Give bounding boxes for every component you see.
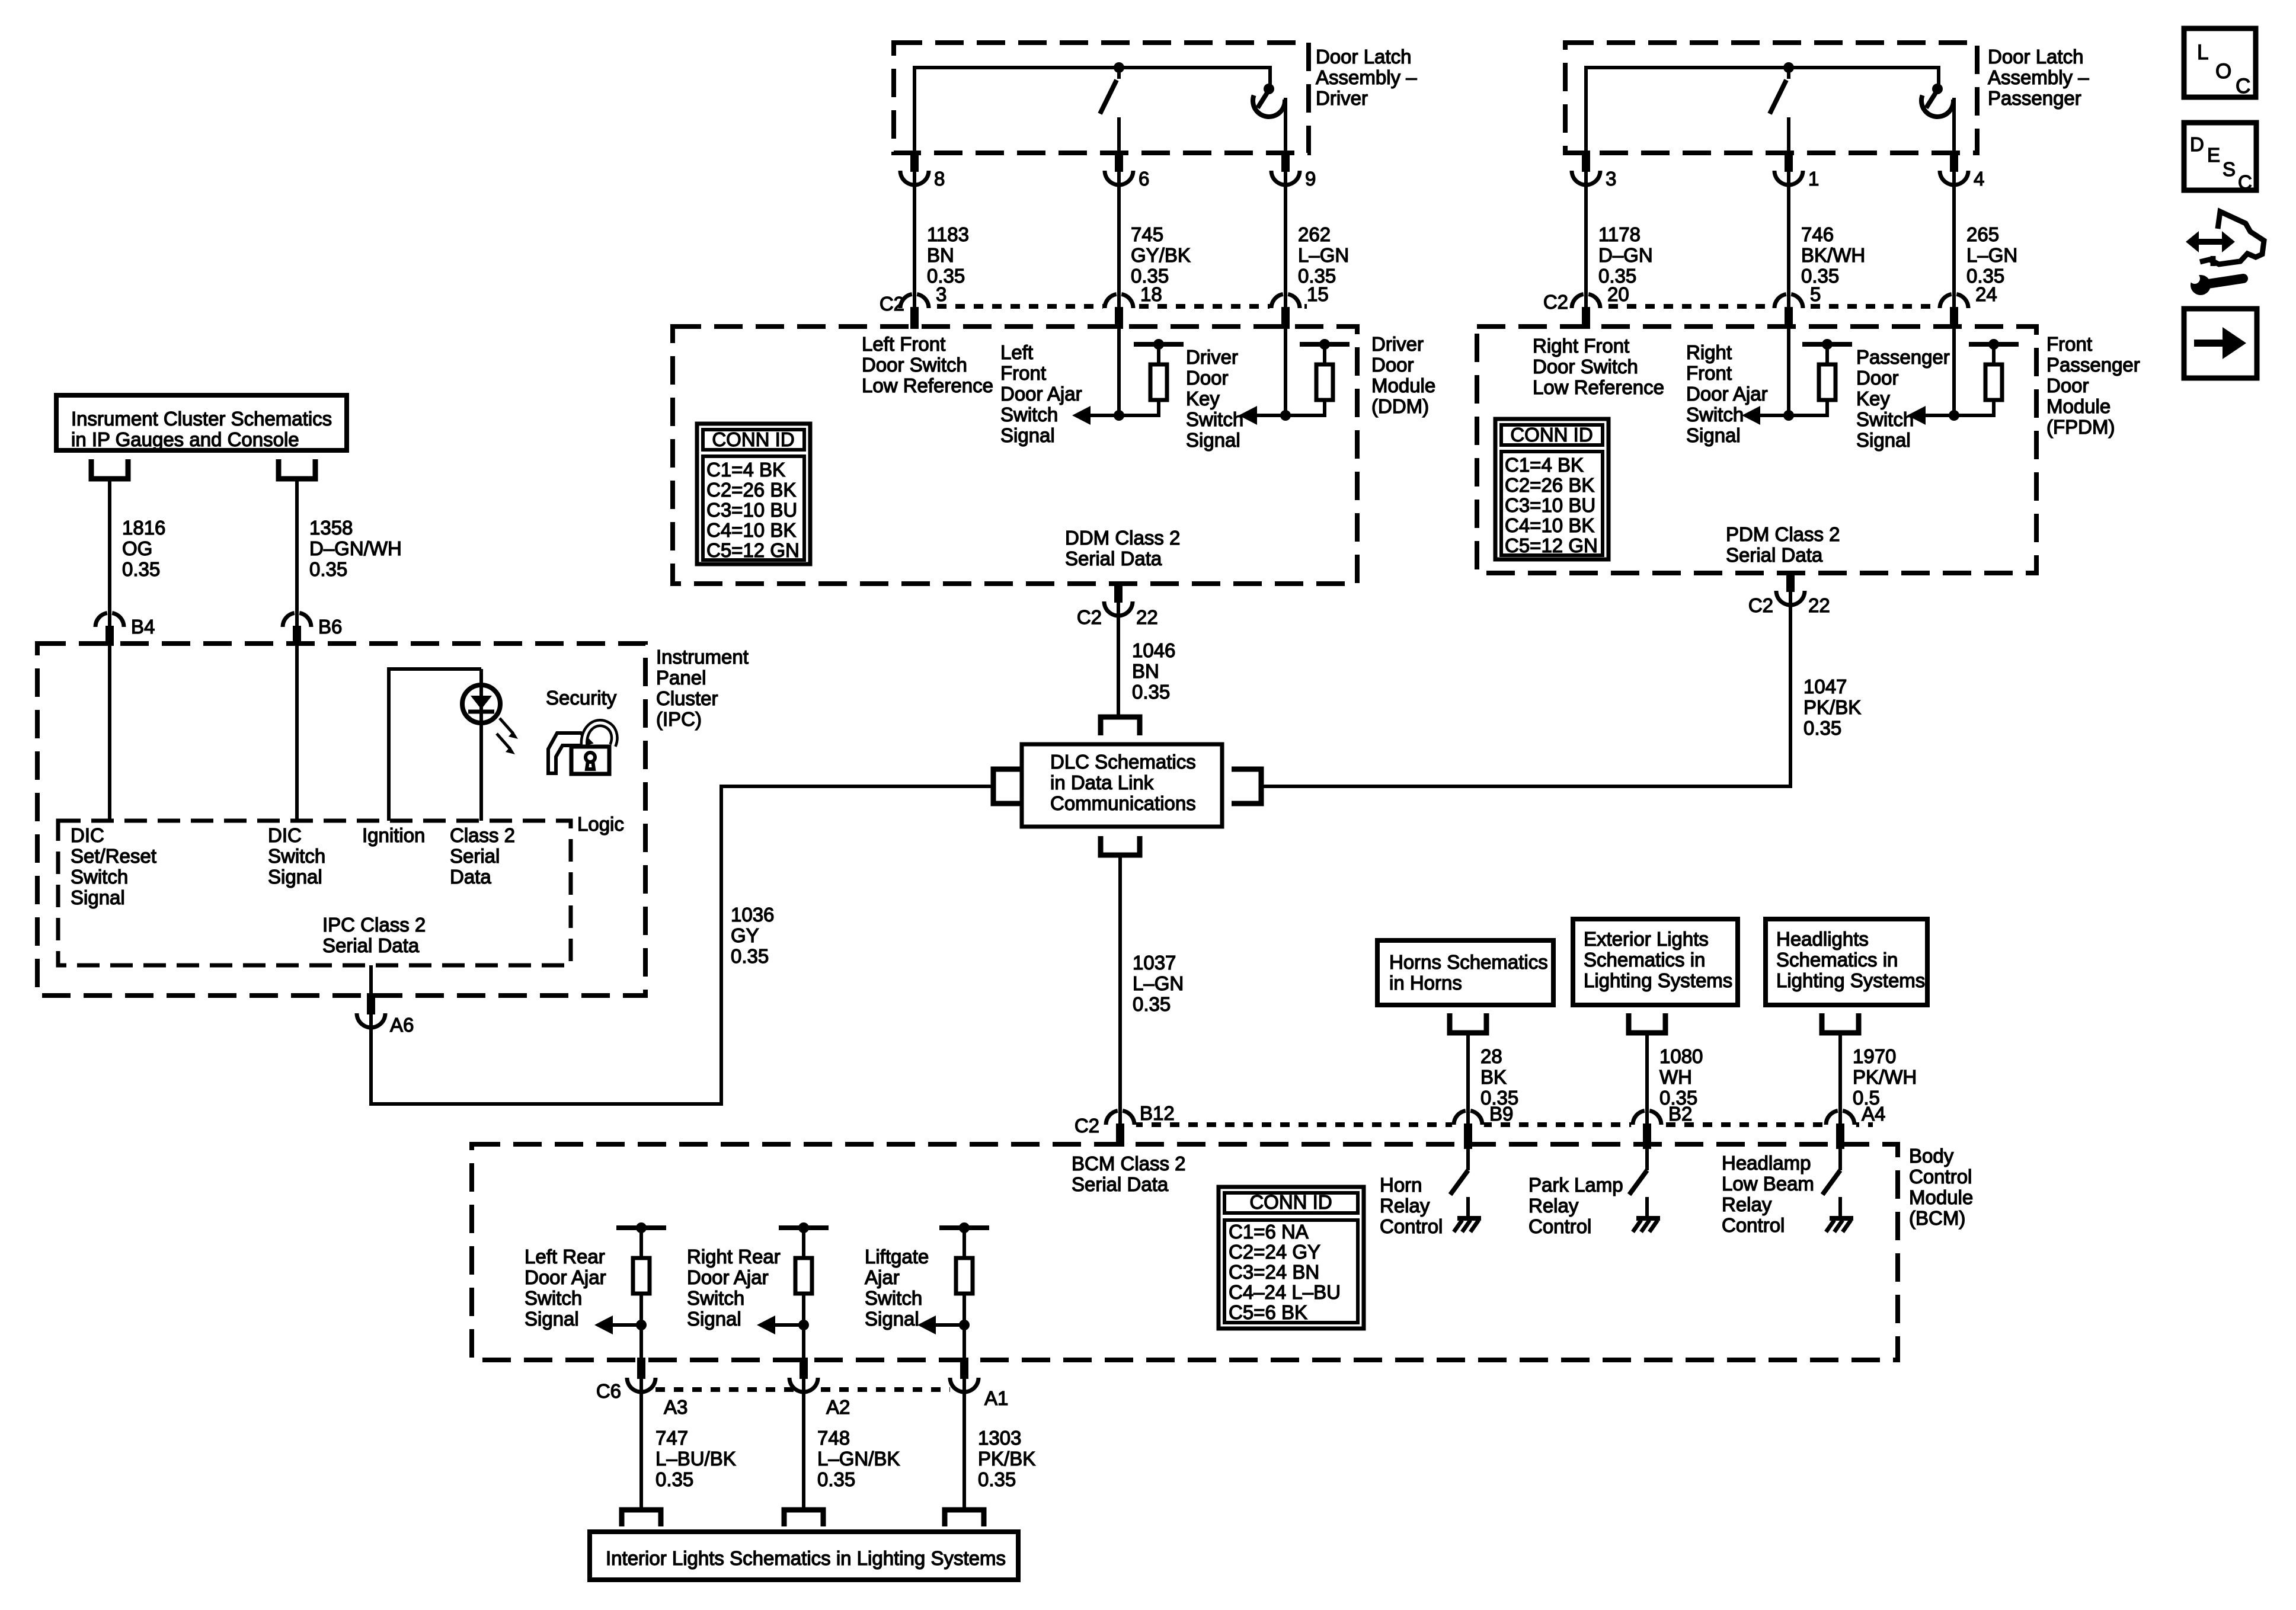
svg-text:Door: Door <box>1371 354 1414 376</box>
svg-text:C4–24 L–BU: C4–24 L–BU <box>1229 1281 1341 1303</box>
connector A4 <box>1824 1109 1856 1141</box>
DESC icon box <box>2184 123 2256 190</box>
connector C2-15 DDM <box>1269 292 1302 324</box>
car repair icon car outline <box>2200 212 2264 264</box>
svg-text:1036: 1036 <box>731 904 774 926</box>
svg-text:Right Rear: Right Rear <box>687 1246 781 1267</box>
connector C2-22 DDM <box>1102 585 1134 617</box>
svg-text:Driver: Driver <box>1186 346 1238 368</box>
wire 748 L-GN/BK <box>802 1392 805 1510</box>
svg-text:18: 18 <box>1140 283 1162 305</box>
svg-text:1080: 1080 <box>1659 1045 1703 1067</box>
forward arrow icon box <box>2184 309 2257 378</box>
connector C2-18 DDM <box>1103 292 1135 324</box>
IPC logic dashed box <box>58 821 571 965</box>
svg-text:A3: A3 <box>664 1396 687 1418</box>
svg-text:(BCM): (BCM) <box>1909 1207 1965 1229</box>
svg-text:Door: Door <box>2046 375 2089 396</box>
svg-text:C5=12 GN: C5=12 GN <box>706 539 800 561</box>
svg-text:4: 4 <box>1974 168 1984 190</box>
svg-text:(FPDM): (FPDM) <box>2046 416 2115 438</box>
wire passenger latch key drop <box>1937 66 1940 87</box>
resistor DDM door ajar <box>1134 342 1184 347</box>
svg-text:L–GN: L–GN <box>1966 244 2017 266</box>
svg-text:L: L <box>2197 41 2208 64</box>
svg-text:DIC: DIC <box>71 824 104 846</box>
PDM C2 dotted line <box>1572 304 1974 309</box>
svg-text:1183: 1183 <box>927 223 969 245</box>
svg-text:Signal: Signal <box>1856 429 1911 451</box>
svg-text:20: 20 <box>1607 283 1629 305</box>
svg-text:24: 24 <box>1975 283 1997 305</box>
key switch driver lever <box>1258 90 1269 108</box>
svg-text:WH: WH <box>1659 1066 1692 1088</box>
horns schematics box <box>1377 940 1553 1005</box>
svg-text:Passenger: Passenger <box>1988 87 2081 109</box>
svg-text:Park Lamp: Park Lamp <box>1528 1174 1623 1196</box>
key switch passenger arc <box>1921 95 1953 117</box>
BCM dashed box <box>472 1144 1898 1360</box>
wire DDM pin18 internal <box>1117 327 1121 415</box>
svg-text:Headlights: Headlights <box>1776 928 1869 950</box>
svg-text:S: S <box>2223 158 2236 180</box>
interior lights bracket 1 <box>622 1510 661 1526</box>
svg-text:E: E <box>2207 144 2220 166</box>
DDM C2 dotted line <box>900 304 1307 309</box>
forward arrow icon <box>2194 340 2226 347</box>
svg-text:Signal: Signal <box>268 866 322 888</box>
wire A6 to DLC <box>371 786 993 1104</box>
svg-text:Panel: Panel <box>656 667 706 689</box>
svg-text:Switch: Switch <box>71 866 128 888</box>
svg-text:Horn: Horn <box>1380 1174 1422 1196</box>
instrument cluster schematics box <box>56 395 347 450</box>
svg-text:Communications: Communications <box>1050 792 1196 814</box>
svg-text:C5=6 BK: C5=6 BK <box>1229 1301 1307 1323</box>
svg-text:C3=10 BU: C3=10 BU <box>706 499 797 521</box>
svg-text:Switch: Switch <box>865 1287 922 1309</box>
svg-text:22: 22 <box>1808 594 1830 616</box>
svg-text:C2=26 BK: C2=26 BK <box>1505 474 1594 496</box>
svg-text:Control: Control <box>1528 1215 1591 1237</box>
svg-text:BK: BK <box>1480 1066 1507 1088</box>
wire FPDM pin24 internal <box>1952 327 1956 415</box>
wire passenger latch pin4 drop <box>1952 98 1956 155</box>
wire 1046 BN <box>1117 616 1120 716</box>
svg-text:Switch: Switch <box>1856 408 1914 430</box>
svg-text:Assembly –: Assembly – <box>1316 66 1417 88</box>
svg-text:Door Latch: Door Latch <box>1316 46 1411 68</box>
svg-text:Serial Data: Serial Data <box>1065 548 1162 569</box>
svg-text:Module: Module <box>1371 375 1435 396</box>
wire ignition <box>389 669 481 821</box>
resistor DDM key switch <box>1300 342 1350 347</box>
svg-text:Horns Schematics: Horns Schematics <box>1389 951 1548 973</box>
svg-text:Key: Key <box>1186 388 1220 409</box>
svg-text:0.35: 0.35 <box>978 1468 1016 1490</box>
BCM CONN ID table <box>1219 1187 1364 1329</box>
LOC icon box <box>2184 28 2256 97</box>
svg-text:B12: B12 <box>1140 1102 1175 1124</box>
svg-text:Cluster: Cluster <box>656 687 718 709</box>
svg-text:D–GN/WH: D–GN/WH <box>309 537 402 559</box>
svg-text:C1=4 BK: C1=4 BK <box>706 459 785 481</box>
svg-text:IPC Class 2: IPC Class 2 <box>322 914 426 936</box>
svg-text:Control: Control <box>1380 1215 1443 1237</box>
connector pin 4 <box>1938 155 1970 187</box>
wire 1358 D-GN/WH <box>295 481 299 613</box>
interior lights bracket 3 <box>945 1510 984 1526</box>
svg-text:Interior Lights Schematics in: Interior Lights Schematics in Lighting S… <box>606 1547 1006 1569</box>
svg-text:0.35: 0.35 <box>731 945 769 967</box>
svg-text:Control: Control <box>1722 1214 1785 1236</box>
svg-text:Signal: Signal <box>1186 429 1240 451</box>
svg-text:1046: 1046 <box>1132 639 1175 661</box>
IC right plug bracket <box>279 459 315 479</box>
svg-text:D–GN: D–GN <box>1598 244 1653 266</box>
svg-text:(IPC): (IPC) <box>656 708 702 730</box>
svg-text:Signal: Signal <box>525 1308 579 1330</box>
connector A2 <box>788 1362 820 1394</box>
node passenger key junction <box>1932 84 1943 94</box>
svg-text:8: 8 <box>934 168 945 190</box>
wire 1047 horizontal to DLC <box>1262 785 1792 788</box>
svg-text:Signal: Signal <box>687 1308 741 1330</box>
arrow DDM key switch signal <box>1257 414 1285 417</box>
wire DDM class2 to DLC <box>1117 616 1120 717</box>
svg-text:Door: Door <box>1186 367 1229 389</box>
svg-text:DDM Class 2: DDM Class 2 <box>1065 527 1180 549</box>
wire 745 GY/BK <box>1117 185 1121 294</box>
BCM bottom dotted line <box>655 1387 950 1392</box>
svg-text:Lighting Systems: Lighting Systems <box>1776 969 1925 991</box>
svg-text:746: 746 <box>1801 223 1834 245</box>
wire FPDM pin1 internal <box>1787 327 1790 415</box>
svg-text:Signal: Signal <box>1000 424 1055 446</box>
resistor FPDM door ajar <box>1802 342 1852 347</box>
security car icon <box>548 733 590 773</box>
svg-text:0.35: 0.35 <box>655 1468 693 1490</box>
svg-text:BN: BN <box>1132 660 1159 682</box>
svg-text:B9: B9 <box>1489 1103 1513 1125</box>
svg-text:Module: Module <box>2046 395 2110 417</box>
switch passenger door ajar blade <box>1787 68 1790 79</box>
svg-text:Set/Reset: Set/Reset <box>71 845 156 867</box>
svg-text:28: 28 <box>1480 1045 1502 1067</box>
horn relay control switch <box>1464 1126 1472 1149</box>
connector C2-20 PDM <box>1570 292 1602 324</box>
wire 747 L-BU/BK <box>639 1392 643 1510</box>
wire driver latch pin9 drop <box>1284 98 1287 155</box>
svg-text:Switch: Switch <box>1686 404 1744 425</box>
IC left plug bracket <box>91 459 128 479</box>
connector pin 6 <box>1103 155 1135 187</box>
wire B6 internal <box>295 646 299 821</box>
svg-text:BK/WH: BK/WH <box>1801 244 1865 266</box>
park lamp relay control switch <box>1643 1126 1651 1149</box>
svg-text:265: 265 <box>1966 223 1999 245</box>
connector C2-3 DDM <box>898 292 930 324</box>
wire driver latch horizontal bus <box>914 66 1270 69</box>
arrow FPDM door ajar signal <box>1760 414 1789 417</box>
node DDM pin18 junction <box>1114 410 1124 421</box>
svg-text:L–GN/BK: L–GN/BK <box>817 1448 900 1470</box>
node passenger latch switch junction <box>1783 62 1794 73</box>
svg-text:Door Ajar: Door Ajar <box>1000 383 1082 405</box>
svg-text:Switch: Switch <box>525 1287 582 1309</box>
wire 746 BK/WH <box>1787 185 1790 294</box>
svg-text:Insrument Cluster Schematics: Insrument Cluster Schematics <box>71 408 332 430</box>
passenger door latch assembly dashed box <box>1565 43 1977 153</box>
svg-text:Left Front: Left Front <box>862 333 945 355</box>
svg-text:Switch: Switch <box>1000 404 1058 425</box>
svg-text:C6: C6 <box>596 1380 621 1402</box>
wire 262 L-GN <box>1284 185 1287 294</box>
svg-text:C4=10 BK: C4=10 BK <box>1505 514 1594 536</box>
svg-text:Serial Data: Serial Data <box>322 934 420 956</box>
svg-text:L–GN: L–GN <box>1298 244 1349 266</box>
svg-text:1358: 1358 <box>309 517 353 539</box>
svg-text:BCM Class 2: BCM Class 2 <box>1072 1153 1186 1174</box>
svg-text:Class 2: Class 2 <box>450 824 515 846</box>
car repair icon arrow <box>2196 239 2224 245</box>
connector B9 <box>1452 1109 1484 1141</box>
svg-text:C4=10 BK: C4=10 BK <box>706 519 796 541</box>
svg-text:Logic: Logic <box>577 813 624 835</box>
interior lights bracket 2 <box>784 1510 823 1526</box>
connector B6 <box>281 611 313 643</box>
wire 28 BK <box>1466 1035 1470 1110</box>
svg-text:BN: BN <box>927 244 954 266</box>
svg-text:Switch: Switch <box>268 845 325 867</box>
wire 1816 OG <box>108 481 111 613</box>
DDM dashed box <box>673 327 1357 584</box>
svg-text:Body: Body <box>1909 1145 1954 1167</box>
connector A6 <box>355 997 387 1029</box>
key switch driver arc <box>1253 95 1285 117</box>
connector C2-B12 <box>1104 1109 1136 1141</box>
security lock icon <box>584 723 615 748</box>
svg-text:A4: A4 <box>1862 1103 1885 1125</box>
svg-text:Passenger: Passenger <box>1856 346 1950 368</box>
arrow FPDM key switch signal <box>1926 414 1954 417</box>
svg-text:Data: Data <box>450 866 491 888</box>
svg-text:Driver: Driver <box>1371 333 1424 355</box>
svg-text:Serial: Serial <box>450 845 500 867</box>
svg-text:Key: Key <box>1856 388 1890 409</box>
svg-text:6: 6 <box>1139 168 1149 190</box>
svg-text:GY: GY <box>731 924 759 946</box>
exterior lights box <box>1573 919 1738 1005</box>
svg-text:A1: A1 <box>984 1387 1008 1409</box>
svg-text:Relay: Relay <box>1722 1193 1772 1215</box>
svg-text:1037: 1037 <box>1133 952 1176 974</box>
liftgate ajar branch <box>939 1225 989 1230</box>
svg-text:Door Ajar: Door Ajar <box>687 1266 769 1288</box>
svg-text:C2=24 GY: C2=24 GY <box>1229 1241 1320 1263</box>
wire IPC class2 drop <box>369 965 373 997</box>
connector pin 1 <box>1773 155 1805 187</box>
svg-text:C2: C2 <box>1748 594 1773 616</box>
svg-text:Module: Module <box>1909 1186 1973 1208</box>
wire passenger latch horizontal bus <box>1586 66 1939 69</box>
svg-text:C2: C2 <box>880 293 904 315</box>
node DDM pin15 junction <box>1280 410 1291 421</box>
connector B2 <box>1631 1109 1663 1141</box>
svg-text:O: O <box>2215 60 2231 83</box>
node driver latch switch junction <box>1114 62 1124 73</box>
svg-text:in Data Link: in Data Link <box>1050 772 1154 793</box>
wire passenger latch pin1 drop <box>1787 117 1790 155</box>
svg-text:Schematics in: Schematics in <box>1584 949 1705 971</box>
svg-text:1178: 1178 <box>1598 223 1641 245</box>
wire 1303 PK/BK <box>962 1392 966 1510</box>
headlamp low beam relay control switch <box>1836 1126 1844 1149</box>
svg-text:3: 3 <box>936 283 946 305</box>
svg-text:PK/WH: PK/WH <box>1853 1066 1917 1088</box>
wire 1080 WH <box>1645 1035 1649 1110</box>
svg-text:Door Ajar: Door Ajar <box>1686 383 1768 405</box>
svg-text:Signal: Signal <box>71 886 125 908</box>
svg-text:Switch: Switch <box>687 1287 744 1309</box>
svg-text:L–GN: L–GN <box>1133 972 1184 994</box>
svg-text:B6: B6 <box>318 616 342 638</box>
svg-text:Serial Data: Serial Data <box>1726 544 1823 566</box>
svg-text:PK/BK: PK/BK <box>1803 696 1861 718</box>
car repair icon wrench <box>2191 275 2211 295</box>
horns plug bracket <box>1450 1013 1486 1033</box>
connector C2-22 PDM <box>1774 575 1806 607</box>
svg-text:0.35: 0.35 <box>309 558 347 580</box>
svg-text:Liftgate: Liftgate <box>865 1246 929 1267</box>
svg-text:0.35: 0.35 <box>122 558 160 580</box>
svg-text:Control: Control <box>1909 1166 1972 1188</box>
svg-text:Right: Right <box>1686 341 1732 363</box>
IPC dashed box <box>37 644 645 996</box>
svg-text:Signal: Signal <box>1686 424 1741 446</box>
svg-text:A6: A6 <box>390 1014 414 1036</box>
svg-text:Ignition: Ignition <box>362 824 425 846</box>
svg-text:Low Beam: Low Beam <box>1722 1173 1814 1195</box>
FPDM dashed box <box>1477 327 2036 573</box>
svg-text:Headlamp: Headlamp <box>1722 1152 1811 1174</box>
wire LED through <box>479 669 483 821</box>
svg-text:0.35: 0.35 <box>1803 717 1841 739</box>
svg-text:Low Reference: Low Reference <box>862 375 993 396</box>
LED light arrows <box>500 718 513 734</box>
wire passenger latch pin3 drop <box>1584 66 1588 155</box>
svg-text:Door Ajar: Door Ajar <box>525 1266 606 1288</box>
svg-text:Exterior Lights: Exterior Lights <box>1584 928 1709 950</box>
svg-text:Right Front: Right Front <box>1533 335 1629 357</box>
left rear door ajar branch <box>616 1225 666 1230</box>
svg-text:Door: Door <box>1856 367 1899 389</box>
svg-text:262: 262 <box>1298 223 1331 245</box>
DLC right plug bracket <box>1232 769 1261 804</box>
DLC top plug bracket <box>1101 717 1140 735</box>
connector C6-A3 <box>625 1362 657 1394</box>
svg-text:Assembly –: Assembly – <box>1988 66 2089 88</box>
svg-text:1: 1 <box>1808 168 1819 190</box>
svg-text:Relay: Relay <box>1528 1195 1579 1217</box>
svg-text:CONN ID: CONN ID <box>712 428 794 450</box>
svg-text:PK/BK: PK/BK <box>978 1448 1035 1470</box>
svg-text:747: 747 <box>655 1427 688 1449</box>
svg-text:0.35: 0.35 <box>817 1468 855 1490</box>
switch driver door ajar blade <box>1117 68 1121 79</box>
svg-text:Switch: Switch <box>1186 408 1243 430</box>
svg-text:D: D <box>2190 133 2204 155</box>
FPDM CONN ID table <box>1495 419 1609 559</box>
svg-text:C1=6 NA: C1=6 NA <box>1229 1221 1309 1243</box>
DDM CONN ID table <box>697 424 810 564</box>
headlights plug bracket <box>1822 1013 1859 1033</box>
exterior plug bracket <box>1629 1013 1665 1033</box>
wire B4 internal <box>108 646 111 821</box>
wire 1183 BN <box>913 185 916 294</box>
svg-text:1303: 1303 <box>978 1427 1021 1449</box>
svg-text:0.35: 0.35 <box>1133 993 1171 1015</box>
svg-text:Serial Data: Serial Data <box>1072 1173 1169 1195</box>
interior lights schematics box <box>590 1532 1018 1580</box>
wire 1178 D-GN <box>1584 185 1588 294</box>
connector B4 <box>94 611 126 643</box>
svg-text:Driver: Driver <box>1316 87 1368 109</box>
svg-text:CONN ID: CONN ID <box>1249 1191 1332 1213</box>
svg-text:C1=4 BK: C1=4 BK <box>1505 454 1584 476</box>
svg-text:5: 5 <box>1810 283 1821 305</box>
wire 1970 PK/WH <box>1838 1035 1842 1110</box>
svg-text:1816: 1816 <box>122 517 165 539</box>
arrow DDM door ajar signal <box>1091 414 1119 417</box>
svg-text:0.35: 0.35 <box>1132 681 1170 703</box>
DLC bottom plug bracket <box>1101 836 1140 855</box>
node driver key junction <box>1264 84 1274 94</box>
svg-text:C: C <box>2238 171 2252 193</box>
wire driver latch pin8 drop <box>913 66 916 155</box>
connector pin 3 <box>1570 155 1602 187</box>
svg-text:Ajar: Ajar <box>865 1266 900 1288</box>
resistor FPDM key switch <box>1969 342 2019 347</box>
connector C2-5 PDM <box>1773 292 1805 324</box>
svg-text:DLC Schematics: DLC Schematics <box>1050 751 1196 773</box>
svg-text:748: 748 <box>817 1427 850 1449</box>
svg-text:15: 15 <box>1307 283 1329 305</box>
LED security indicator <box>462 685 500 723</box>
svg-text:745: 745 <box>1131 223 1163 245</box>
svg-text:1047: 1047 <box>1803 676 1847 697</box>
svg-text:C2: C2 <box>1077 606 1102 628</box>
driver door latch assembly dashed box <box>894 43 1309 153</box>
connector pin 8 <box>898 155 930 187</box>
svg-text:Door Switch: Door Switch <box>1533 356 1638 377</box>
svg-text:Door Switch: Door Switch <box>862 354 967 376</box>
svg-text:Signal: Signal <box>865 1308 919 1330</box>
svg-text:(DDM): (DDM) <box>1371 395 1429 417</box>
wire 1037 L-GN <box>1118 855 1122 1110</box>
connector A1 <box>948 1362 980 1394</box>
wire 1047 PK/BK vertical <box>1789 605 1792 786</box>
svg-text:C3=24 BN: C3=24 BN <box>1229 1261 1319 1283</box>
svg-text:1970: 1970 <box>1853 1045 1896 1067</box>
BCM C2 dotted line <box>1133 1122 1873 1127</box>
svg-text:B2: B2 <box>1668 1103 1692 1125</box>
svg-text:3: 3 <box>1606 168 1616 190</box>
svg-text:C2=26 BK: C2=26 BK <box>706 479 796 501</box>
key switch passenger lever <box>1926 90 1937 108</box>
svg-text:Door Latch: Door Latch <box>1988 46 2083 68</box>
svg-text:C2: C2 <box>1075 1115 1099 1137</box>
